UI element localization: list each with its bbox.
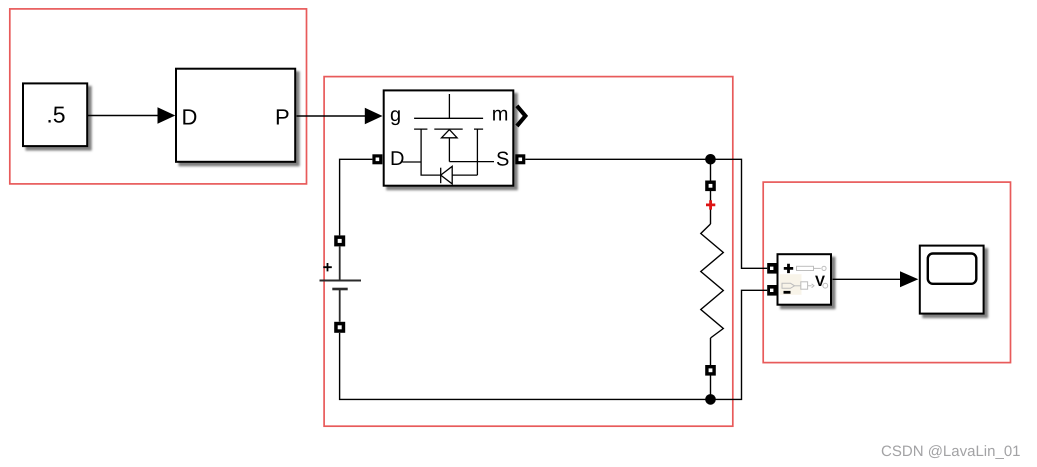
svg-text:S: S [496, 148, 509, 170]
svg-text:D: D [182, 104, 198, 129]
svg-text:P: P [275, 104, 290, 129]
svg-text:D: D [390, 148, 404, 170]
svg-text:V: V [815, 273, 825, 290]
svg-text:m: m [492, 104, 509, 126]
svg-text:.5: .5 [46, 102, 65, 128]
svg-text:g: g [390, 104, 401, 126]
svg-text:CSDN @LavaLin_01: CSDN @LavaLin_01 [881, 443, 1020, 460]
